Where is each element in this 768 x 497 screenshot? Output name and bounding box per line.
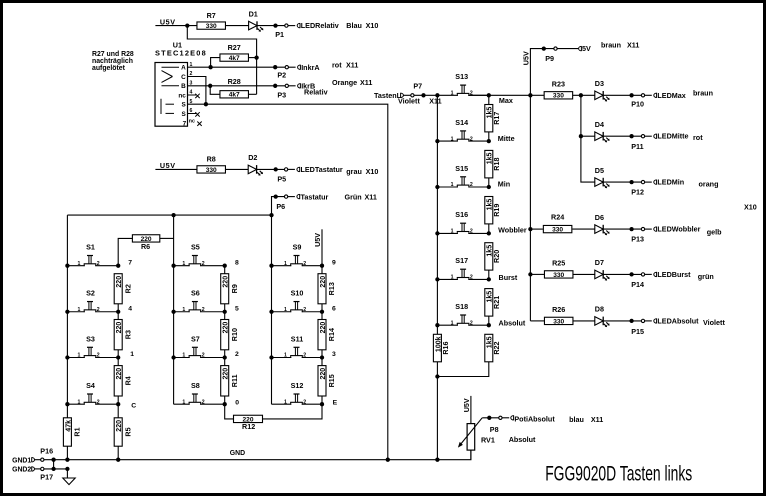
wire D8 to P15 — [603, 320, 643, 322]
wire R24 to D6 — [572, 228, 595, 230]
svg-text:2: 2 — [470, 320, 473, 326]
resistor R22 — [485, 334, 493, 362]
svg-text:aufgelötet: aufgelötet — [92, 65, 126, 72]
switch S18 — [437, 302, 488, 326]
svg-text:P16: P16 — [40, 446, 53, 455]
svg-text:R27: R27 — [228, 43, 241, 52]
junction dots column 9/6/3/E — [320, 264, 324, 268]
svg-text:3: 3 — [332, 351, 336, 358]
svg-text:LEDMitte: LEDMitte — [657, 132, 688, 141]
svg-text:U5V: U5V — [521, 51, 530, 65]
junction dots U5V rail — [542, 46, 546, 50]
svg-text:P12: P12 — [631, 188, 644, 197]
junction dot P14 — [629, 272, 633, 276]
svg-text:C: C — [181, 74, 186, 81]
svg-text:R8: R8 — [207, 155, 216, 164]
wire column net 9/6/3/E with R13-R15 — [321, 266, 323, 274]
svg-text:Relativ: Relativ — [304, 88, 328, 97]
svg-text:LEDWobbler: LEDWobbler — [657, 225, 700, 234]
svg-text:2: 2 — [235, 351, 239, 358]
svg-text:P7: P7 — [413, 82, 422, 91]
junction dot P12 — [629, 180, 633, 184]
junction dots ladder column — [487, 93, 491, 97]
switch S11 — [272, 334, 323, 358]
wire R6 right to S5 column — [160, 237, 174, 239]
svg-text:S12: S12 — [291, 381, 304, 390]
resistor R25 — [544, 271, 573, 278]
resistor R19 — [485, 197, 493, 224]
svg-text:Violett: Violett — [703, 318, 725, 327]
wire D1 to P1 — [257, 25, 286, 27]
svg-text:S4: S4 — [86, 381, 95, 390]
svg-text:D1: D1 — [249, 9, 258, 18]
svg-text:S17: S17 — [455, 256, 468, 265]
svg-text:2: 2 — [303, 307, 306, 313]
svg-text:X10: X10 — [366, 21, 379, 30]
svg-text:Blau: Blau — [346, 21, 362, 30]
svg-text:R7: R7 — [207, 11, 216, 20]
svg-text:S13: S13 — [455, 72, 468, 81]
svg-text:Burst: Burst — [499, 273, 518, 282]
svg-text:220: 220 — [320, 322, 327, 334]
svg-text:220: 220 — [223, 322, 230, 334]
svg-text:R21: R21 — [492, 296, 501, 309]
svg-text:R22: R22 — [492, 341, 501, 354]
junction dots column 7/4/1/C — [116, 264, 120, 268]
wire R26 to D8 — [573, 320, 594, 322]
connector pin P14 LEDBurst — [641, 273, 644, 276]
wire D3 to P10 — [603, 94, 643, 96]
svg-text:Max: Max — [499, 96, 513, 105]
svg-text:1: 1 — [182, 261, 185, 267]
diode D3 — [595, 91, 603, 100]
net U5V stub at RV1 — [470, 396, 472, 424]
svg-text:P11: P11 — [631, 142, 643, 151]
diode D2 — [248, 165, 256, 174]
switch S16 — [437, 210, 488, 234]
svg-text:2: 2 — [202, 353, 205, 359]
junction dot R27 right — [254, 55, 258, 59]
wire column net 7/4/1/C with R2-R5 — [117, 304, 119, 320]
svg-text:1: 1 — [78, 261, 81, 267]
svg-text:nc: nc — [189, 119, 195, 125]
svg-text:2: 2 — [470, 229, 473, 235]
resistor R15 — [318, 366, 326, 396]
junction dots GND rail — [51, 458, 55, 462]
svg-text:P6: P6 — [276, 202, 285, 211]
wire U5V rail to R24 — [530, 228, 543, 230]
svg-text:2: 2 — [470, 136, 473, 142]
svg-text:grau: grau — [346, 167, 362, 176]
svg-text:P8: P8 — [490, 425, 499, 434]
switch S17 — [437, 256, 488, 280]
svg-text:S3: S3 — [86, 334, 95, 343]
svg-text:P15: P15 — [631, 327, 644, 336]
wire GND2 row — [44, 468, 68, 470]
svg-text:P5: P5 — [277, 175, 286, 184]
svg-text:R5: R5 — [123, 427, 132, 436]
wire R25 to D7 — [573, 273, 594, 275]
svg-text:2: 2 — [97, 307, 100, 313]
svg-text:1: 1 — [451, 91, 454, 97]
resistor R13 — [318, 274, 326, 304]
svg-text:1: 1 — [78, 353, 81, 359]
wire R8 to D2 — [225, 168, 248, 170]
resistor R23 — [544, 92, 573, 99]
svg-text:LEDMin: LEDMin — [657, 178, 684, 187]
junction dots InkrA — [208, 65, 212, 69]
connector pin P1 LEDRelativ — [285, 24, 288, 27]
wire ladder column R17-R22 — [488, 95, 490, 104]
junction dot D4 feed — [579, 134, 583, 138]
svg-text:InkrA: InkrA — [301, 63, 319, 72]
svg-text:2: 2 — [202, 399, 205, 405]
svg-text:1: 1 — [182, 399, 185, 405]
svg-text:S11: S11 — [291, 334, 303, 343]
svg-text:rot: rot — [332, 61, 342, 70]
switch S4 — [67, 381, 118, 405]
svg-text:R28: R28 — [228, 77, 241, 86]
svg-text:S10: S10 — [291, 289, 304, 298]
resistor R5 — [114, 418, 122, 446]
resistor R11 — [221, 366, 229, 396]
wire D5 to P12 — [603, 181, 643, 183]
wire R16 bottom to GND rail — [436, 362, 438, 460]
svg-text:220: 220 — [116, 420, 123, 432]
junction dot D1/P1 — [273, 23, 277, 27]
svg-text:330: 330 — [553, 93, 564, 100]
svg-text:P10: P10 — [631, 100, 644, 109]
wire D6 to P13 — [603, 228, 643, 230]
svg-text:LEDAbsolut: LEDAbsolut — [657, 316, 699, 325]
resistor R27 — [220, 54, 249, 61]
connector pin P8 PotiAbsolut — [499, 416, 502, 419]
svg-text:220: 220 — [116, 322, 123, 334]
svg-text:330: 330 — [206, 23, 217, 30]
svg-text:330: 330 — [552, 227, 563, 234]
svg-text:Min: Min — [498, 180, 510, 189]
resistor R9 — [221, 274, 229, 304]
wire S13-S18 pin1 column — [436, 95, 438, 334]
svg-text:X11: X11 — [429, 96, 441, 105]
resistor R14 — [318, 320, 326, 350]
wire R1 bottom to GND rail — [66, 446, 68, 460]
svg-text:S8: S8 — [191, 381, 200, 390]
resistor R16 — [433, 334, 441, 362]
svg-text:R16: R16 — [441, 341, 450, 354]
svg-text:P1: P1 — [275, 30, 284, 39]
svg-text:LEDMax: LEDMax — [657, 91, 685, 100]
wire column net 8/5/2/0 with R9-R11 — [224, 266, 226, 274]
svg-text:2: 2 — [470, 182, 473, 188]
connector pin P3 IkrB — [285, 84, 288, 87]
svg-text:1: 1 — [451, 275, 454, 281]
svg-text:2: 2 — [97, 399, 100, 405]
wire P6 to keypad rail — [272, 197, 287, 216]
svg-text:R4: R4 — [123, 376, 132, 385]
svg-text:2: 2 — [202, 261, 205, 267]
wire LED feed column to D4 D5 — [581, 95, 595, 182]
junction dot P6 — [274, 194, 278, 198]
svg-text:X10: X10 — [744, 202, 757, 211]
wire net IkrB (U1 pin3) — [188, 85, 287, 87]
switch S2 — [67, 289, 118, 313]
junction dots S5-S8 column — [171, 264, 175, 268]
switch S15 — [437, 164, 488, 188]
wire S13 row to R23 — [468, 94, 530, 96]
connector pin P10 LEDMax — [641, 94, 644, 97]
svg-text:R20: R20 — [492, 250, 501, 263]
svg-text:1: 1 — [130, 351, 134, 358]
junction dots column 8/5/2/0 — [223, 264, 227, 268]
junction dot pin5/C — [204, 102, 208, 106]
svg-text:Orange: Orange — [332, 78, 357, 87]
svg-text:rot: rot — [693, 133, 703, 142]
svg-text:R3: R3 — [123, 330, 132, 339]
wire S5-S8 pin1 column — [173, 215, 175, 404]
svg-text:4k7: 4k7 — [229, 92, 240, 99]
svg-text:GND: GND — [230, 450, 245, 457]
junction dot P13 — [629, 227, 633, 231]
junction dot D2/P5 — [274, 167, 278, 171]
U1 pin 4 no-connect stub — [188, 94, 197, 96]
svg-text:R6: R6 — [141, 242, 150, 251]
wire R23 to D3 — [573, 94, 595, 96]
svg-text:U5V: U5V — [462, 398, 471, 412]
svg-text:D5: D5 — [595, 166, 604, 175]
svg-text:R11: R11 — [230, 374, 239, 387]
diode D5 — [595, 178, 603, 187]
svg-text:R2: R2 — [123, 284, 132, 293]
svg-text:220: 220 — [320, 276, 327, 288]
diode D4 — [595, 132, 603, 141]
wire U5V to R27/R28 pull-up rail — [187, 26, 256, 95]
svg-text:4: 4 — [128, 305, 132, 312]
switch S14 — [437, 118, 488, 142]
wire U5V to R7 — [155, 25, 197, 27]
svg-text:220: 220 — [116, 276, 123, 288]
svg-text:Grün: Grün — [345, 192, 362, 201]
svg-text:2: 2 — [97, 261, 100, 267]
svg-text:R24: R24 — [551, 213, 564, 222]
switch S7 — [174, 334, 225, 358]
wire U5V rail to R26 — [530, 320, 544, 322]
resistor R18 — [485, 150, 493, 178]
junction dot P15 — [629, 319, 633, 323]
wire R27 left to pin1 net — [211, 58, 220, 68]
resistor R4 — [114, 366, 122, 396]
resistor R24 — [543, 225, 572, 232]
svg-text:braun: braun — [601, 40, 621, 49]
svg-text:330: 330 — [553, 272, 564, 279]
svg-text:X11: X11 — [360, 78, 372, 87]
wire U1 pin2 C to pin5 junction — [188, 77, 206, 105]
svg-text:FGG9020D Tasten links: FGG9020D Tasten links — [545, 461, 692, 485]
svg-text:S1: S1 — [86, 243, 95, 252]
svg-text:1: 1 — [284, 353, 287, 359]
svg-text:1: 1 — [284, 399, 287, 405]
diode D1 — [249, 21, 257, 30]
wire net InkrA (U1 pin1) — [188, 66, 287, 68]
svg-text:7: 7 — [128, 259, 132, 266]
svg-text:R25: R25 — [552, 259, 565, 268]
resistor R6 — [132, 235, 159, 242]
svg-text:X11: X11 — [627, 40, 639, 49]
svg-text:S16: S16 — [455, 210, 468, 219]
junction dots S13-S18 column — [435, 139, 439, 143]
potentiometer RV1 — [458, 418, 495, 450]
svg-text:2: 2 — [97, 353, 100, 359]
junction dot P11 — [629, 134, 633, 138]
svg-text:S: S — [182, 102, 187, 109]
svg-text:A: A — [181, 65, 186, 72]
svg-text:E: E — [333, 399, 338, 406]
svg-text:R1: R1 — [73, 427, 82, 436]
resistor R20 — [485, 243, 493, 270]
wire GND rail — [44, 450, 471, 460]
svg-text:220: 220 — [320, 368, 327, 380]
resistor R21 — [485, 289, 493, 317]
wire D4 to P11 — [603, 135, 643, 137]
svg-text:220: 220 — [223, 368, 230, 380]
svg-text:S15: S15 — [455, 164, 468, 173]
svg-text:9: 9 — [332, 259, 336, 266]
svg-text:blau: blau — [569, 415, 584, 424]
wire P7 to S13 — [414, 94, 458, 96]
switch S13 — [451, 72, 489, 96]
wire R28 right — [248, 93, 256, 95]
svg-text:D4: D4 — [595, 120, 604, 129]
svg-text:1: 1 — [78, 399, 81, 405]
svg-text:1: 1 — [182, 353, 185, 359]
connector pin P6 Tastatur — [284, 195, 287, 198]
encoder U1 STEC12E08 — [155, 40, 207, 127]
junction dot U5V/R27-feed — [185, 23, 189, 27]
svg-text:Tastatur: Tastatur — [301, 192, 329, 201]
wire R28 left to pin3 net — [210, 86, 220, 95]
junction dots on top rail — [171, 213, 175, 217]
svg-text:X11: X11 — [591, 415, 603, 424]
svg-text:1: 1 — [451, 182, 454, 188]
svg-text:R10: R10 — [230, 328, 239, 341]
wire RV1 wiper to P8 — [482, 417, 500, 419]
resistor R2 — [114, 274, 122, 304]
svg-text:330: 330 — [206, 167, 217, 174]
svg-text:1: 1 — [78, 307, 81, 313]
svg-text:2: 2 — [470, 275, 473, 281]
svg-text:Mitte: Mitte — [498, 134, 515, 143]
svg-text:D3: D3 — [595, 79, 604, 88]
resistor R26 — [544, 317, 573, 324]
resistor R8 — [197, 166, 226, 173]
svg-text:220: 220 — [223, 276, 230, 288]
junction dots S9-S12 column — [269, 264, 273, 268]
svg-text:RV1: RV1 — [481, 435, 495, 444]
svg-text:LEDBurst: LEDBurst — [657, 270, 691, 279]
resistor R17 — [485, 105, 493, 132]
svg-text:S14: S14 — [455, 118, 468, 127]
svg-text:1: 1 — [182, 307, 185, 313]
net U5V stub at R13 column — [321, 229, 323, 265]
svg-text:S9: S9 — [293, 243, 302, 252]
svg-text:LEDRelativ: LEDRelativ — [301, 21, 339, 30]
svg-text:gelb: gelb — [707, 227, 722, 236]
svg-text:X11: X11 — [346, 61, 358, 70]
svg-text:B: B — [181, 83, 186, 90]
svg-text:R9: R9 — [230, 284, 239, 293]
svg-text:S: S — [182, 111, 187, 118]
wire R12 right to column E — [263, 404, 323, 419]
svg-text:X10: X10 — [366, 167, 379, 176]
svg-text:4k7: 4k7 — [229, 55, 240, 62]
resistor R12 — [234, 415, 263, 422]
svg-text:C: C — [131, 403, 136, 410]
svg-text:orang: orang — [699, 179, 719, 188]
switch S12 — [272, 381, 323, 405]
resistor R10 — [221, 320, 229, 350]
junction dots P7 net — [421, 93, 425, 97]
svg-text:5: 5 — [235, 305, 239, 312]
svg-text:STEC12E08: STEC12E08 — [155, 49, 207, 58]
wire S1-S4 pin1 column — [66, 215, 68, 418]
junction dot P10 — [629, 93, 633, 97]
wire R7 to D1 — [225, 25, 248, 27]
svg-text:GND1: GND1 — [12, 457, 31, 464]
svg-text:Wobbler: Wobbler — [498, 225, 527, 234]
switch S10 — [272, 289, 323, 313]
connector pin P15 LEDAbsolut — [641, 319, 644, 322]
switch S6 — [174, 289, 225, 313]
wire R12 left to column 0 — [225, 404, 234, 419]
svg-text:P13: P13 — [631, 235, 644, 244]
svg-text:47k: 47k — [65, 420, 72, 432]
connector pin P13 LEDWobbler — [641, 227, 644, 230]
wire R27 right — [248, 57, 256, 59]
connector pin P2 InkrA — [285, 66, 288, 69]
wire U1 pin5 S to GND rail (long) — [188, 104, 388, 460]
junction dots IkrB — [208, 84, 212, 88]
ground symbol — [63, 478, 75, 485]
svg-text:5V: 5V — [582, 44, 591, 53]
svg-text:R26: R26 — [552, 305, 565, 314]
svg-text:0: 0 — [235, 399, 239, 406]
svg-text:S6: S6 — [191, 289, 200, 298]
resistor R7 — [197, 22, 226, 29]
svg-text:R23: R23 — [552, 80, 565, 89]
connector pin P5 LEDTastatur — [284, 168, 287, 171]
svg-text:GND2: GND2 — [12, 467, 31, 474]
resistor R28 — [220, 91, 249, 98]
svg-text:6: 6 — [332, 305, 336, 312]
svg-text:R12: R12 — [242, 422, 255, 431]
svg-text:nc: nc — [178, 93, 186, 100]
svg-text:S5: S5 — [191, 243, 200, 252]
wire U5V to R8 — [155, 168, 197, 170]
svg-text:D7: D7 — [595, 258, 604, 267]
wire to ground symbol — [66, 469, 68, 478]
junction dot P8 — [487, 416, 491, 420]
svg-text:S18: S18 — [455, 302, 468, 311]
svg-text:R19: R19 — [492, 204, 501, 217]
svg-text:7: 7 — [183, 121, 187, 128]
switch S8 — [174, 381, 225, 405]
diode D7 — [595, 270, 603, 279]
svg-text:2: 2 — [303, 353, 306, 359]
junction dot D3 feed — [579, 93, 583, 97]
svg-text:braun: braun — [693, 88, 713, 97]
wire U5V rail to R25 — [530, 273, 544, 275]
svg-text:R13: R13 — [327, 282, 336, 295]
